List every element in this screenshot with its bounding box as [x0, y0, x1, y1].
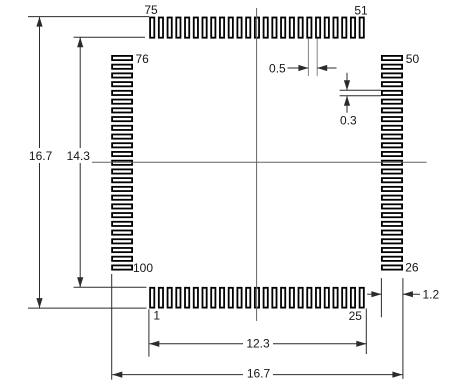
- svg-text:25: 25: [349, 309, 363, 323]
- svg-text:100: 100: [133, 261, 153, 275]
- svg-text:26: 26: [405, 260, 419, 274]
- svg-text:0.3: 0.3: [340, 114, 357, 128]
- svg-text:51: 51: [354, 4, 368, 18]
- svg-text:50: 50: [406, 52, 420, 66]
- svg-text:1.2: 1.2: [423, 288, 440, 302]
- svg-text:16.7: 16.7: [247, 366, 271, 380]
- svg-text:16.7: 16.7: [29, 149, 53, 163]
- svg-text:0.5: 0.5: [269, 62, 286, 76]
- svg-text:14.3: 14.3: [67, 149, 91, 163]
- svg-text:12.3: 12.3: [246, 336, 270, 350]
- svg-text:76: 76: [136, 52, 150, 66]
- svg-text:75: 75: [144, 3, 158, 17]
- svg-text:1: 1: [153, 308, 160, 322]
